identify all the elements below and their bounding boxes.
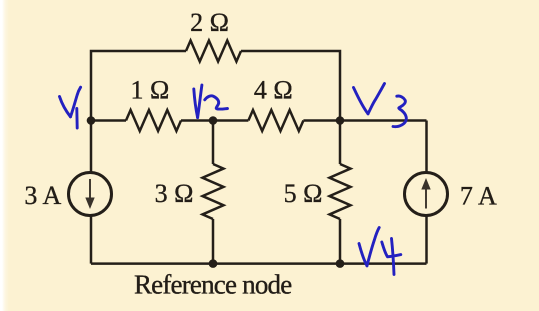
wire middle right segment to corner — [303, 119, 426, 122]
wire left branch lower — [90, 215, 93, 263]
annotation V3 — [354, 88, 369, 114]
annotation V2 — [194, 89, 198, 118]
wire top loop left drop — [91, 51, 186, 121]
wire middle left segment — [91, 119, 126, 122]
svg-text:2 Ω: 2 Ω — [190, 8, 229, 37]
current source I2 arrow up — [421, 178, 430, 209]
node bottom dot right — [336, 259, 345, 268]
svg-text:3 Ω: 3 Ω — [155, 179, 194, 208]
wire 3ohm branch lower — [212, 219, 215, 264]
wire bottom — [91, 262, 427, 265]
annotation V4 — [359, 244, 367, 266]
resistor R 2ohm zigzag — [186, 41, 241, 62]
svg-text:5 Ω: 5 Ω — [284, 179, 323, 208]
wire 5ohm branch upper — [339, 121, 342, 165]
current source I1 3A circle — [69, 173, 112, 216]
wire middle segment V2 — [181, 119, 248, 122]
wire right branch upper — [425, 121, 428, 173]
resistor R 5ohm zigzag — [330, 164, 351, 219]
wire left branch upper — [90, 121, 93, 173]
wire right branch lower — [425, 216, 428, 264]
svg-text:4 Ω: 4 Ω — [254, 76, 293, 105]
node V3 dot — [336, 116, 345, 125]
node bottom dot left — [209, 259, 218, 268]
wire 3ohm branch upper — [212, 121, 215, 165]
resistor R 1ohm zigzag — [126, 110, 181, 131]
resistor R 4ohm zigzag — [248, 110, 303, 131]
svg-text:1 Ω: 1 Ω — [130, 76, 169, 105]
svg-text:Reference node: Reference node — [134, 270, 292, 300]
current source I2 7A circle — [405, 173, 448, 216]
svg-text:7 A: 7 A — [460, 182, 497, 211]
annotation V1 — [60, 97, 71, 117]
svg-text:3 A: 3 A — [24, 181, 61, 210]
current source I1 arrow down — [85, 179, 94, 209]
wire 5ohm branch lower — [339, 219, 342, 264]
node V1 dot — [87, 116, 96, 125]
resistor R 3ohm zigzag — [203, 164, 224, 219]
wire top loop right drop — [241, 51, 340, 121]
node V2 dot — [209, 116, 218, 125]
